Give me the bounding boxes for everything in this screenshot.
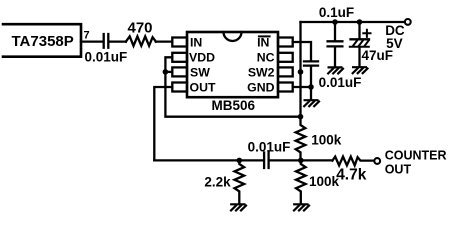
resistor R3 2.2k zigzag — [235, 160, 245, 203]
op-amp U1 TA7358P box — [3, 24, 81, 57]
terminal DC 5V circle — [405, 19, 411, 25]
pin box GND (pin5) — [278, 83, 293, 92]
pin box /IN (pin8) — [278, 38, 293, 47]
wire C2 to GND node — [310, 67, 312, 100]
resistor R4 100k lower zigzag — [296, 160, 306, 203]
wire VDD/SW down to node — [165, 72, 300, 117]
svg-text:VDD: VDD — [189, 51, 215, 65]
capacitor C4 hatched negative plate — [350, 41, 369, 47]
svg-text:0.01uF: 0.01uF — [85, 50, 128, 65]
pin box OUT (pin4) — [172, 83, 187, 92]
svg-text:NC: NC — [257, 51, 275, 65]
svg-text:IN: IN — [257, 35, 269, 49]
junction SW node — [163, 69, 169, 75]
wire +5V vertical x300 — [299, 22, 301, 117]
resistor R2 100k upper zigzag — [296, 117, 306, 161]
svg-text:OUT: OUT — [190, 80, 216, 94]
bottom wire left segment — [154, 159, 263, 161]
svg-text:470: 470 — [128, 19, 153, 36]
bottom wire right segment — [270, 159, 333, 161]
capacitor C4 47uF electrolytic top plate — [351, 38, 370, 40]
ground below R3 — [231, 204, 246, 210]
svg-text:4.7k: 4.7k — [336, 167, 367, 184]
wire C4 to ground — [358, 48, 360, 66]
wire C3 to ground — [334, 48, 336, 67]
terminal COUNTER OUT circle — [374, 158, 380, 164]
ground below C3 — [328, 67, 343, 73]
wire C1 to R1 — [109, 40, 126, 42]
svg-text:SW: SW — [190, 65, 210, 79]
pin box NC (pin7) — [278, 53, 293, 62]
svg-text:SW2: SW2 — [248, 65, 275, 79]
IC U2 MB506 body — [187, 32, 278, 97]
top rail — [301, 21, 405, 23]
wire GND pin right — [293, 86, 311, 88]
junction divider node — [298, 158, 304, 164]
svg-text:TA7358P: TA7358P — [12, 33, 74, 50]
svg-text:47uF: 47uF — [362, 48, 394, 63]
capacitor C1 0.01uF plates — [104, 34, 109, 48]
wire VDD left — [165, 57, 172, 72]
pin box IN (pin1) — [172, 38, 187, 47]
svg-text:100k: 100k — [309, 174, 340, 189]
capacitor C5 0.01uF coupling plates — [264, 153, 269, 169]
ground below C2 — [304, 100, 319, 106]
junction VDD rail node — [298, 114, 304, 120]
notch — [224, 32, 242, 41]
wire /IN pin to bypass corner — [293, 42, 311, 60]
svg-text:0.01uF: 0.01uF — [248, 139, 291, 154]
svg-text:IN: IN — [190, 35, 202, 49]
svg-text:GND: GND — [247, 80, 274, 94]
resistor R5 4.7k zigzag — [332, 157, 374, 166]
resistor R1 470 zigzag — [126, 36, 156, 45]
svg-text:0.01uF: 0.01uF — [319, 75, 362, 90]
capacitor C2 0.01uF bypass plates — [304, 61, 318, 65]
junction 2.2k node — [237, 158, 243, 164]
svg-text:MB506: MB506 — [212, 98, 256, 113]
wire R1 to IN pin — [156, 40, 172, 42]
wire OUT left and down — [154, 87, 172, 160]
plus sign — [363, 30, 370, 37]
ground below R4 — [294, 204, 309, 210]
junction GND bypass node — [308, 84, 314, 90]
svg-text:100k: 100k — [311, 133, 342, 148]
ground below C4 — [353, 67, 368, 73]
wire 0.1uF branch — [334, 22, 336, 40]
junction 0.1uF rail node — [332, 19, 338, 25]
overline for /IN — [259, 35, 270, 37]
pin box VDD (pin2) — [172, 53, 187, 62]
pin box SW2 (pin6) — [278, 67, 293, 76]
pin box SW (pin3) — [172, 67, 187, 76]
capacitor C3 0.1uF plates — [328, 41, 343, 46]
svg-text:2.2k: 2.2k — [204, 175, 231, 190]
junction SW2 node — [298, 69, 304, 75]
svg-text:7: 7 — [84, 30, 90, 42]
svg-text:COUNTER: COUNTER — [385, 149, 447, 163]
svg-text:OUT: OUT — [385, 163, 412, 177]
svg-text:0.1uF: 0.1uF — [319, 5, 354, 20]
junction 47uF rail node — [357, 19, 363, 25]
wire SW left — [165, 71, 172, 73]
wire pin7 to C1 — [81, 40, 103, 42]
wire 47uF branch — [358, 22, 360, 39]
